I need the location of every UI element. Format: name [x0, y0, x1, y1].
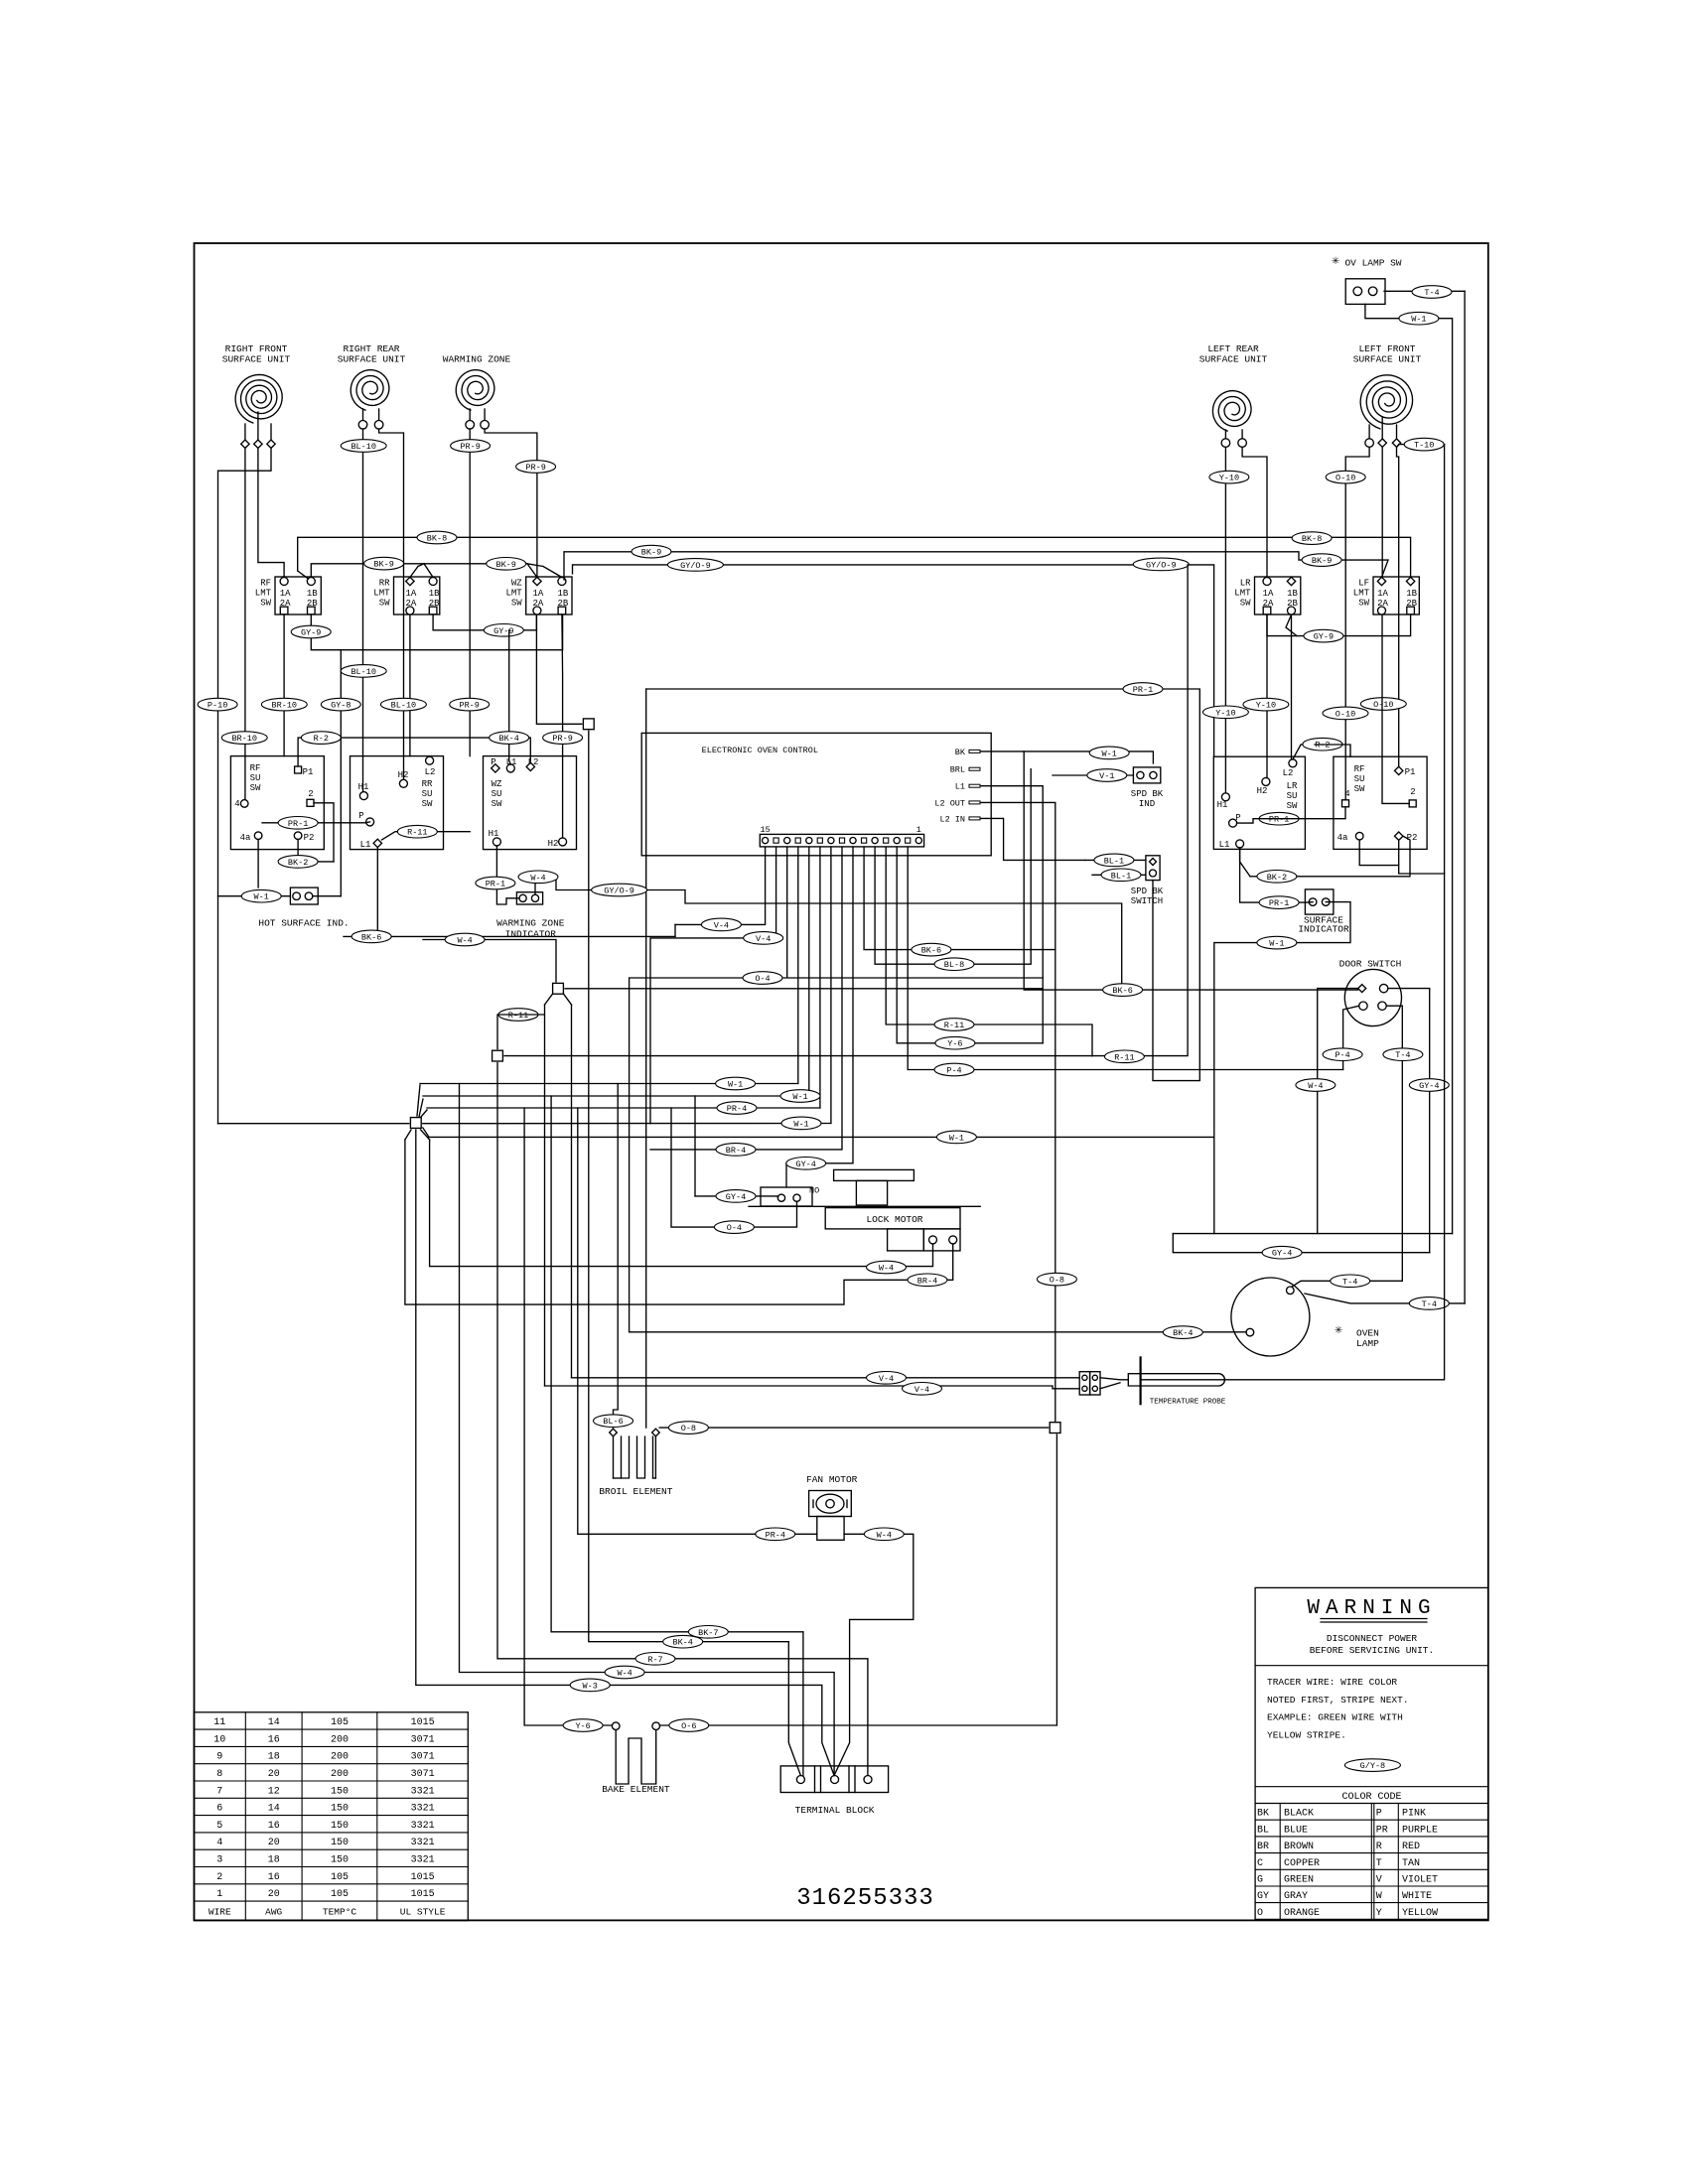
- svg-text:BR-4: BR-4: [726, 1146, 746, 1156]
- wire BL-6 broil drop: [614, 1084, 619, 1430]
- wire label R-2: [1303, 738, 1342, 751]
- wire label BK-4: [490, 732, 529, 745]
- wire label BK-8: [1292, 532, 1332, 545]
- svg-text:RIGHT REAR: RIGHT REAR: [343, 343, 399, 354]
- wire label BL-10: [341, 665, 386, 678]
- wire RF LMT 2A down into RF SU box: [283, 614, 285, 755]
- wire label O-8: [1037, 1273, 1076, 1286]
- svg-text:SURFACE UNIT: SURFACE UNIT: [222, 354, 291, 365]
- svg-text:W-1: W-1: [1102, 749, 1117, 758]
- junction square A: [583, 719, 594, 730]
- wire label GY/O-9: [667, 559, 723, 572]
- wire O-4 line right to Y-6 riser: [788, 977, 1043, 979]
- svg-text:ELECTRONIC OVEN CONTROL: ELECTRONIC OVEN CONTROL: [702, 746, 818, 755]
- svg-text:4a: 4a: [1337, 833, 1348, 843]
- wire V-4 upper probe line: [572, 1377, 1080, 1379]
- wire label BK-7: [688, 1626, 728, 1639]
- svg-text:SW: SW: [1240, 599, 1251, 609]
- wire riser W-4 to terminal block: [460, 1084, 835, 1776]
- svg-text:BK-2: BK-2: [1267, 873, 1287, 883]
- WZ surface switch box: [484, 756, 577, 850]
- wire label BL-10: [380, 698, 426, 711]
- svg-text:4: 4: [234, 799, 239, 809]
- svg-text:W-4: W-4: [879, 1264, 894, 1274]
- wire W-1 fan line y1104: [423, 1095, 809, 1097]
- svg-text:O: O: [1257, 1908, 1263, 1919]
- wire GY-4 low to lock NO contact: [695, 1196, 777, 1198]
- svg-text:W-4: W-4: [877, 1530, 892, 1540]
- wire label PR-9: [450, 698, 490, 711]
- wire lamp T-4 upper to door T-4 drop: [1292, 1281, 1402, 1287]
- svg-text:GY-4: GY-4: [795, 1160, 815, 1169]
- wire EOC pin 8 drop to BR-4: [650, 847, 842, 1150]
- wire label P-10: [198, 698, 237, 711]
- wire W-4 lock feeder: [430, 1140, 933, 1267]
- wire PR-4 fan line y1116: [427, 1107, 820, 1109]
- wire EOC pin 7 drop to GY-4: [786, 847, 853, 1187]
- wire R-11 oval stub to junction C: [497, 1015, 544, 1049]
- wire riser Y-6 to bake element: [524, 1108, 612, 1725]
- wire LR LMT 2B down to LR SU L2: [1291, 614, 1293, 759]
- svg-text:P: P: [1376, 1809, 1382, 1820]
- terminal block: [780, 1766, 888, 1816]
- svg-text:WZ: WZ: [511, 579, 522, 589]
- svg-text:BROIL ELEMENT: BROIL ELEMENT: [599, 1486, 672, 1497]
- svg-text:150: 150: [331, 1804, 349, 1815]
- left rear surface unit coil: [1199, 343, 1268, 447]
- svg-text:T-4: T-4: [1422, 1299, 1437, 1309]
- svg-text:WZ: WZ: [492, 779, 502, 789]
- svg-text:H1: H1: [1217, 800, 1228, 810]
- wire label GY-8: [321, 698, 360, 711]
- svg-text:UL STYLE: UL STYLE: [400, 1907, 446, 1918]
- svg-text:150: 150: [331, 1855, 349, 1866]
- wire label P-4: [1323, 1048, 1362, 1061]
- EOC terminal strip pins: [763, 838, 922, 844]
- svg-text:1015: 1015: [411, 1717, 435, 1728]
- svg-text:SW: SW: [250, 783, 261, 793]
- svg-text:RIGHT FRONT: RIGHT FRONT: [225, 343, 288, 354]
- svg-text:3321: 3321: [411, 1804, 435, 1815]
- fan motor: [806, 1474, 858, 1541]
- svg-text:T-4: T-4: [1342, 1277, 1357, 1287]
- lock motor NO contact: [761, 1186, 819, 1207]
- svg-text:BK-6: BK-6: [1112, 986, 1132, 996]
- svg-text:SW: SW: [511, 599, 522, 609]
- wire GY-4 lower bus: [1173, 1234, 1429, 1253]
- svg-text:H2: H2: [548, 839, 559, 849]
- wire label GY/O-9: [592, 884, 647, 896]
- svg-text:P1: P1: [1405, 767, 1416, 777]
- svg-text:W-1: W-1: [254, 892, 269, 902]
- svg-text:O-10: O-10: [1336, 709, 1355, 719]
- wire label BK-9: [632, 545, 671, 558]
- wire label BK-9: [1302, 554, 1341, 567]
- wire label PR-9: [451, 440, 491, 453]
- wire label R-11: [397, 825, 437, 838]
- svg-text:15: 15: [760, 825, 770, 835]
- wire BK-4 terminal feeder diagonal: [657, 1642, 801, 1776]
- svg-text:3321: 3321: [411, 1838, 435, 1848]
- wire W-1 surface indicator loop down: [1214, 902, 1350, 1234]
- wire label R-11: [934, 1019, 974, 1031]
- svg-text:SU: SU: [422, 789, 433, 799]
- svg-text:18: 18: [268, 1855, 280, 1866]
- svg-text:R-11: R-11: [407, 828, 427, 838]
- svg-text:Y-6: Y-6: [947, 1039, 962, 1049]
- svg-text:PR-1: PR-1: [486, 880, 505, 889]
- wire O-8 broil bus to junction E: [659, 1427, 1048, 1429]
- svg-text:PURPLE: PURPLE: [1402, 1825, 1438, 1836]
- svg-text:5: 5: [216, 1821, 222, 1832]
- wire BK-4 drop into WZ SU box: [509, 630, 511, 764]
- svg-text:SURFACE UNIT: SURFACE UNIT: [338, 354, 406, 365]
- svg-text:W-3: W-3: [583, 1681, 598, 1691]
- page border frame: [195, 243, 1488, 1920]
- svg-text:O-10: O-10: [1336, 474, 1355, 483]
- wire T-4 from OV LAMP SW to right bus: [1384, 290, 1465, 292]
- svg-text:10: 10: [213, 1734, 225, 1745]
- wire label BL-8: [934, 958, 974, 971]
- wire label O-4: [743, 972, 782, 985]
- svg-text:BK: BK: [955, 748, 966, 757]
- svg-text:1B: 1B: [429, 589, 440, 599]
- wire V-1 to SPD BK IND: [1053, 774, 1133, 776]
- wire P2 down through BK-2 oval: [298, 840, 334, 862]
- wire label W-4: [518, 871, 558, 884]
- svg-text:BR-4: BR-4: [917, 1276, 937, 1286]
- svg-text:L2: L2: [1283, 768, 1294, 778]
- wire LF coil lead 2 into LF LMT: [1381, 447, 1383, 577]
- svg-text:INDICATOR: INDICATOR: [1298, 923, 1349, 934]
- svg-text:RF: RF: [260, 579, 271, 589]
- wire label W-1: [1399, 312, 1439, 325]
- wire left rail into junction D: [218, 1123, 409, 1125]
- svg-text:TRACER WIRE: WIRE COLOR: TRACER WIRE: WIRE COLOR: [1267, 1677, 1397, 1688]
- svg-text:16: 16: [268, 1872, 280, 1883]
- svg-text:BL-10: BL-10: [391, 701, 417, 711]
- wire W-4 warming zone ind to GY/O-9 lower bus: [535, 877, 1122, 990]
- wire RF coil lead 2 jog to RF LMT 1A: [258, 448, 284, 577]
- svg-text:NO: NO: [809, 1186, 819, 1196]
- svg-text:SW: SW: [379, 599, 390, 609]
- svg-text:TAN: TAN: [1402, 1858, 1420, 1869]
- wire vertical riser for GY-4 low: [694, 1096, 696, 1196]
- svg-text:PINK: PINK: [1402, 1809, 1426, 1820]
- wire label GY/O-9: [1133, 558, 1189, 571]
- svg-text:AWG: AWG: [265, 1907, 282, 1918]
- svg-text:DISCONNECT POWER: DISCONNECT POWER: [1327, 1633, 1418, 1644]
- wire W-4 bus to junction B: [423, 940, 556, 982]
- svg-text:P-4: P-4: [946, 1066, 961, 1076]
- RR LMT SW limit switch: [373, 577, 440, 614]
- svg-text:EXAMPLE: GREEN WIRE WITH: EXAMPLE: GREEN WIRE WITH: [1267, 1712, 1403, 1723]
- wire label O-8: [668, 1422, 708, 1434]
- oven lamp: [1231, 1278, 1379, 1356]
- svg-text:2: 2: [1410, 787, 1415, 797]
- svg-text:R: R: [1376, 1842, 1382, 1852]
- wire label O-6: [669, 1719, 709, 1732]
- svg-text:7: 7: [216, 1786, 222, 1797]
- svg-text:GY: GY: [1257, 1891, 1269, 1902]
- svg-text:20: 20: [268, 1889, 280, 1900]
- svg-text:WHITE: WHITE: [1402, 1891, 1432, 1902]
- wire label W-1: [1089, 747, 1129, 759]
- junction square D: [410, 1118, 421, 1129]
- wire riser BK-7 from W-1 fan line: [551, 1096, 803, 1776]
- svg-text:TERMINAL BLOCK: TERMINAL BLOCK: [795, 1805, 875, 1816]
- svg-text:BK-4: BK-4: [672, 1638, 692, 1648]
- svg-text:V-1: V-1: [1099, 771, 1114, 781]
- svg-text:Y-10: Y-10: [1219, 474, 1239, 483]
- RF surface switch box: [230, 756, 324, 850]
- wire label BK-9: [487, 558, 526, 571]
- wire label PR-9: [516, 461, 556, 474]
- svg-text:RR: RR: [379, 579, 390, 589]
- wire label GY-4: [716, 1190, 756, 1203]
- wire GY vertical to hot surface indicator: [340, 650, 342, 896]
- wire P-4 riser to door switch contact: [1343, 1006, 1359, 1069]
- svg-text:Y-6: Y-6: [575, 1721, 590, 1731]
- svg-text:GY-4: GY-4: [726, 1192, 746, 1202]
- wire label W-4: [867, 1261, 907, 1274]
- svg-text:WARMING ZONE: WARMING ZONE: [443, 354, 511, 365]
- wire RF SU 2 terminal loop to BK-2: [314, 803, 334, 862]
- svg-text:BEFORE SERVICING UNIT.: BEFORE SERVICING UNIT.: [1310, 1645, 1434, 1656]
- svg-text:18: 18: [268, 1752, 280, 1763]
- wire label V-1: [1087, 769, 1127, 782]
- svg-text:2: 2: [216, 1872, 222, 1883]
- temperature probe: [1079, 1357, 1226, 1406]
- svg-text:GY/O-9: GY/O-9: [1146, 560, 1177, 570]
- wire label W-1: [716, 1077, 756, 1090]
- svg-text:L2: L2: [425, 767, 436, 777]
- broil element: [599, 1429, 672, 1497]
- wire label GY-4: [786, 1158, 826, 1170]
- svg-text:GY-9: GY-9: [301, 628, 321, 638]
- wire label BK-6: [912, 943, 951, 956]
- wire label W-4: [605, 1666, 644, 1679]
- svg-text:GY-9: GY-9: [493, 626, 513, 636]
- svg-text:BK-9: BK-9: [373, 560, 393, 570]
- wire EOC pin 12 drop to W-1 fan line: [797, 847, 799, 1084]
- wire PR-1 to surface indicator: [1240, 850, 1314, 902]
- wire BK-9 center bus to LF LMT 1A: [564, 552, 1388, 580]
- svg-text:R-11: R-11: [508, 1011, 528, 1021]
- svg-text:SPD BK: SPD BK: [1131, 789, 1164, 799]
- wire D fan up diagonals: [417, 1085, 427, 1117]
- svg-text:PR-1: PR-1: [1133, 685, 1153, 695]
- svg-text:TEMP°C: TEMP°C: [323, 1907, 357, 1918]
- wire D down diagonals: [405, 1130, 430, 1140]
- svg-text:PR-4: PR-4: [727, 1104, 747, 1114]
- svg-text:SPD BK: SPD BK: [1131, 887, 1164, 896]
- svg-text:P-10: P-10: [208, 701, 227, 711]
- svg-text:BLACK: BLACK: [1284, 1809, 1314, 1820]
- wire R-11 long line from junction C: [504, 1055, 1092, 1057]
- wire label PR-1: [1259, 896, 1299, 909]
- wire LR coil lead 2 jog into LR LMT: [1242, 447, 1267, 577]
- bake element: [602, 1722, 670, 1795]
- wire label Y-10: [1202, 706, 1248, 719]
- svg-text:L1: L1: [1219, 840, 1230, 850]
- wire PR-1 LR P to RF(right) 4: [1237, 807, 1345, 823]
- wire label BK-4: [1163, 1326, 1202, 1339]
- wire door switch W-4 drop: [1318, 989, 1358, 1234]
- svg-text:T-10: T-10: [1414, 441, 1434, 451]
- wire label BL-1: [1094, 854, 1134, 867]
- svg-text:SU: SU: [1354, 774, 1365, 784]
- svg-text:LEFT REAR: LEFT REAR: [1207, 343, 1259, 354]
- svg-text:GY-8: GY-8: [331, 701, 351, 711]
- wire W-1 fan line y1091: [420, 1083, 798, 1085]
- wire BL-1 to SPD BK switch: [1085, 859, 1146, 861]
- wire label W-1: [1257, 936, 1297, 949]
- svg-text:IND: IND: [1139, 799, 1155, 809]
- wire EOC pin 11 drop to W-1 fan line: [808, 847, 810, 1096]
- svg-text:3: 3: [216, 1855, 222, 1866]
- lock motor: [749, 1169, 980, 1251]
- svg-text:✳: ✳: [1332, 253, 1339, 268]
- svg-text:BL-1: BL-1: [1104, 856, 1124, 866]
- wire label PR-1: [476, 877, 515, 889]
- wire W-3 feeder from junction D: [416, 1130, 834, 1776]
- wire LF coil lead 1 jog down to RF(right) 4 terminal: [1345, 447, 1369, 799]
- wire cross bus y1242: [1173, 1233, 1452, 1235]
- SPD BK indicator: [1131, 767, 1164, 809]
- svg-text:1A: 1A: [1377, 589, 1388, 599]
- svg-text:BL: BL: [1257, 1825, 1269, 1836]
- WZ LMT SW limit switch: [505, 577, 572, 614]
- svg-text:11: 11: [213, 1717, 225, 1728]
- wire EOC L2 IN to BL-1 switch wires: [981, 818, 1085, 860]
- svg-text:SW: SW: [492, 799, 502, 809]
- svg-text:RF: RF: [250, 763, 261, 773]
- LR surface switch box: [1213, 756, 1305, 850]
- wire label BR-10: [261, 698, 307, 711]
- wire R-2 bus from P1 to WZ L2: [298, 738, 530, 766]
- svg-text:PR-1: PR-1: [1269, 898, 1289, 908]
- svg-text:BR-10: BR-10: [231, 734, 257, 744]
- svg-text:YELLOW: YELLOW: [1402, 1908, 1438, 1919]
- wire EOC pin 3 drop to Y-6: [897, 847, 1043, 1043]
- svg-text:PR-4: PR-4: [766, 1530, 785, 1540]
- svg-text:12: 12: [268, 1786, 280, 1797]
- wire label BL-10: [341, 440, 386, 453]
- svg-text:PR-9: PR-9: [460, 442, 480, 452]
- wire label BK-6: [1103, 984, 1143, 997]
- wire RR coil lead 2 jog to H2 drop: [379, 429, 404, 779]
- wire label V-4: [744, 932, 783, 945]
- svg-text:BK-9: BK-9: [1312, 556, 1332, 566]
- wire label BK-2: [1257, 871, 1297, 884]
- svg-text:PR-9: PR-9: [459, 701, 479, 711]
- wire W-1 long fan line y1145: [423, 1128, 429, 1137]
- wire label PR-4: [717, 1102, 757, 1115]
- wire label V-4: [701, 918, 741, 931]
- svg-text:GY-9: GY-9: [1314, 632, 1334, 642]
- wire label Y-6: [563, 1719, 603, 1732]
- svg-text:BL-8: BL-8: [944, 960, 964, 970]
- svg-text:RR: RR: [422, 779, 433, 789]
- wire label GY-9: [291, 625, 331, 638]
- wire label W-1: [936, 1131, 976, 1144]
- wire P2 loop right: [1399, 866, 1445, 874]
- svg-text:L1: L1: [360, 840, 371, 850]
- wire fan motor W-4 to terminal block: [834, 1534, 914, 1775]
- wire label W-1: [780, 1090, 820, 1103]
- svg-text:O-8: O-8: [1050, 1276, 1064, 1286]
- svg-text:14: 14: [268, 1804, 280, 1815]
- svg-text:TEMPERATURE PROBE: TEMPERATURE PROBE: [1150, 1399, 1226, 1407]
- svg-text:105: 105: [331, 1717, 349, 1728]
- svg-text:16: 16: [268, 1734, 280, 1745]
- wire label T-4: [1412, 286, 1452, 299]
- svg-text:V-4: V-4: [756, 934, 771, 944]
- svg-text:GY/O-9: GY/O-9: [604, 887, 634, 896]
- wire EOC pin 6 drop to BK-6 right: [864, 847, 1055, 950]
- svg-text:BK-4: BK-4: [1173, 1328, 1193, 1338]
- svg-text:COLOR CODE: COLOR CODE: [1341, 1792, 1401, 1803]
- wire label V-4: [867, 1372, 907, 1385]
- svg-text:W-1: W-1: [1269, 939, 1284, 949]
- svg-text:L2 OUT: L2 OUT: [934, 798, 965, 808]
- svg-text:BR-10: BR-10: [272, 701, 298, 711]
- surface indicator: [1298, 889, 1349, 935]
- wire label BR-4: [908, 1274, 947, 1287]
- svg-text:OV LAMP SW: OV LAMP SW: [1344, 258, 1401, 269]
- wire RR LMT 2A down into RR SU box: [409, 614, 411, 755]
- svg-text:T-4: T-4: [1395, 1050, 1410, 1060]
- wire label W-3: [570, 1679, 610, 1692]
- svg-text:Y-10: Y-10: [1215, 708, 1235, 718]
- svg-text:W-1: W-1: [793, 1119, 808, 1129]
- svg-text:RF: RF: [1354, 764, 1365, 774]
- svg-text:BK-9: BK-9: [641, 548, 661, 558]
- svg-text:1A: 1A: [405, 589, 416, 599]
- svg-text:4: 4: [216, 1838, 222, 1848]
- wire EOC BK terminal to door switch BK-6 bus: [981, 751, 1358, 990]
- svg-text:BK-2: BK-2: [288, 858, 308, 868]
- wire label PR-1: [278, 817, 318, 830]
- junction square C: [492, 1050, 503, 1061]
- wire label BK-9: [364, 557, 404, 570]
- svg-text:W-1: W-1: [728, 1080, 743, 1090]
- electronic oven control box U1: [641, 733, 991, 855]
- right rear surface unit coil: [338, 343, 406, 429]
- svg-text:O-4: O-4: [727, 1223, 742, 1233]
- svg-text:GY/O-9: GY/O-9: [680, 561, 711, 571]
- svg-text:W-4: W-4: [530, 873, 545, 883]
- svg-text:20: 20: [268, 1769, 280, 1780]
- wire LR L1 to BK-2 bus: [1240, 848, 1250, 877]
- wire LR coil lead 1 down to LR SU H1: [1224, 447, 1226, 792]
- svg-text:BL-10: BL-10: [351, 667, 376, 677]
- svg-text:BLUE: BLUE: [1284, 1825, 1308, 1836]
- svg-text:105: 105: [331, 1889, 349, 1900]
- svg-text:1B: 1B: [307, 589, 318, 599]
- svg-text:L1: L1: [955, 782, 965, 792]
- svg-text:YELLOW STRIPE.: YELLOW STRIPE.: [1267, 1730, 1346, 1741]
- svg-text:BRL: BRL: [950, 765, 965, 775]
- wire WZ LMT 2A down to junction square A: [536, 614, 581, 724]
- svg-text:ORANGE: ORANGE: [1284, 1908, 1320, 1919]
- oven lamp switch box OV LAMP SW: [1332, 253, 1402, 304]
- wire label T-4: [1331, 1275, 1370, 1288]
- svg-text:150: 150: [331, 1838, 349, 1848]
- wire label G/Y-8: [1344, 1759, 1400, 1772]
- wire label GY-9: [484, 624, 523, 637]
